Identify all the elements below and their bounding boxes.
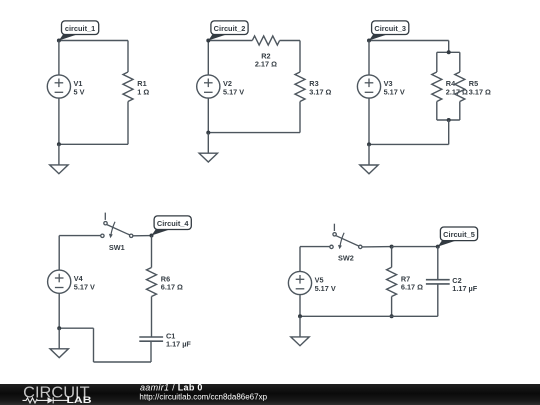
svg-text:5.17 V: 5.17 V: [384, 87, 405, 96]
wire: [207, 41, 209, 75]
svg-text:circuit_1: circuit_1: [65, 24, 95, 33]
wire: [127, 41, 129, 73]
wire: [437, 284, 439, 316]
node circuit_5: [436, 245, 440, 249]
svg-text:5 V: 5 V: [74, 87, 85, 96]
ground: [50, 328, 68, 357]
wire: [368, 98, 370, 144]
svg-text:SW1: SW1: [109, 243, 125, 252]
resistor R2: [252, 36, 279, 45]
capacitor C1: [139, 337, 163, 341]
svg-text:http://circuitlab.com/ccn8da86: http://circuitlab.com/ccn8da86e67xp: [139, 392, 267, 401]
wire: [437, 247, 439, 280]
svg-text:3.17 Ω: 3.17 Ω: [309, 88, 331, 97]
wire: [436, 102, 438, 121]
wire: [59, 40, 128, 42]
capacitor C2: [426, 280, 450, 284]
footer bar: [0, 384, 540, 405]
wire: [448, 41, 450, 53]
wire: [150, 341, 152, 362]
node label circuit_1: [59, 21, 99, 41]
node junction: [57, 142, 61, 146]
node junction: [206, 131, 210, 135]
wire: [151, 297, 153, 338]
wire: [208, 40, 252, 42]
svg-text:5.17 V: 5.17 V: [315, 284, 336, 293]
wire: [151, 236, 153, 268]
node junction: [447, 118, 451, 122]
wire: [93, 328, 95, 362]
voltage source V3: [357, 75, 380, 98]
node label Circuit_3: [369, 21, 409, 41]
node circuit_2 top-left: [206, 39, 210, 43]
wire: [436, 52, 438, 72]
svg-text:5.17 V: 5.17 V: [74, 283, 95, 292]
node label Circuit_4: [152, 216, 192, 236]
svg-text:aamir1 / Lab 0: aamir1 / Lab 0: [140, 383, 203, 393]
wire: [362, 246, 392, 248]
wire: [59, 327, 93, 329]
svg-text:Circuit_3: Circuit_3: [374, 24, 406, 33]
voltage source V4: [48, 270, 71, 293]
node junction: [390, 314, 394, 318]
svg-text:2.17 Ω: 2.17 Ω: [255, 60, 277, 69]
voltage source V2: [197, 75, 220, 98]
svg-text:1.17 µF: 1.17 µF: [452, 284, 477, 293]
resistor R7: [387, 267, 397, 296]
ground: [50, 144, 68, 173]
wire: [299, 102, 301, 133]
wire: [459, 52, 461, 72]
wire: [369, 143, 449, 145]
wire parallel bottom rail: [437, 119, 460, 121]
wire: [368, 41, 370, 75]
switch SW2: [330, 224, 362, 250]
wire: [127, 102, 129, 145]
resistor R5: [455, 72, 465, 102]
wire: [300, 315, 438, 317]
wire: [280, 40, 300, 42]
node circuit_3 top-left: [367, 39, 371, 43]
wire: [94, 361, 152, 363]
resistor R3: [295, 72, 305, 102]
svg-text:6.17 Ω: 6.17 Ω: [161, 283, 183, 292]
svg-text:1 Ω: 1 Ω: [137, 87, 149, 96]
svg-text:Circuit_4: Circuit_4: [157, 219, 190, 228]
wire parallel top rail: [437, 51, 460, 53]
node junction: [57, 326, 61, 330]
wire: [299, 247, 301, 272]
node junction: [390, 245, 394, 249]
wire: [207, 98, 209, 133]
voltage source V5: [288, 271, 311, 294]
node junction: [298, 314, 302, 318]
node junction: [367, 142, 371, 146]
svg-text:6.17 Ω: 6.17 Ω: [401, 283, 423, 292]
svg-text:SW2: SW2: [338, 254, 354, 263]
ground: [291, 316, 309, 345]
node circuit_1 top-left: [57, 39, 61, 43]
resistor R1: [123, 72, 133, 102]
wire: [58, 293, 60, 328]
resistor R4: [432, 72, 442, 102]
logo resistor zigzag and diode: [23, 397, 69, 403]
switch SW1: [101, 213, 133, 239]
wire: [392, 246, 438, 248]
wire: [58, 98, 60, 144]
wire: [299, 41, 301, 73]
wire: [448, 120, 450, 144]
svg-text:Circuit_2: Circuit_2: [214, 24, 246, 33]
voltage source V1: [47, 75, 70, 98]
wire: [59, 235, 100, 237]
wire: [369, 40, 449, 42]
wire: [391, 297, 393, 317]
node circuit_4: [150, 234, 154, 238]
wire: [208, 132, 300, 134]
resistor R6: [147, 268, 157, 297]
wire: [59, 143, 128, 145]
ground: [199, 133, 217, 162]
svg-text:3.17 Ω: 3.17 Ω: [469, 88, 491, 97]
node junction: [447, 50, 451, 54]
svg-text:5.17 V: 5.17 V: [223, 87, 244, 96]
svg-text:LAB: LAB: [67, 395, 93, 405]
wire: [391, 247, 393, 268]
svg-text:1.17 µF: 1.17 µF: [166, 340, 191, 349]
wire: [133, 235, 152, 237]
node label Circuit_2: [208, 21, 248, 41]
wire: [459, 102, 461, 121]
ground: [360, 144, 378, 173]
svg-text:Circuit_5: Circuit_5: [443, 230, 475, 239]
wire: [300, 246, 330, 248]
node label Circuit_5: [438, 227, 478, 247]
wire: [58, 236, 60, 271]
wire: [299, 295, 301, 317]
wire: [58, 41, 60, 75]
